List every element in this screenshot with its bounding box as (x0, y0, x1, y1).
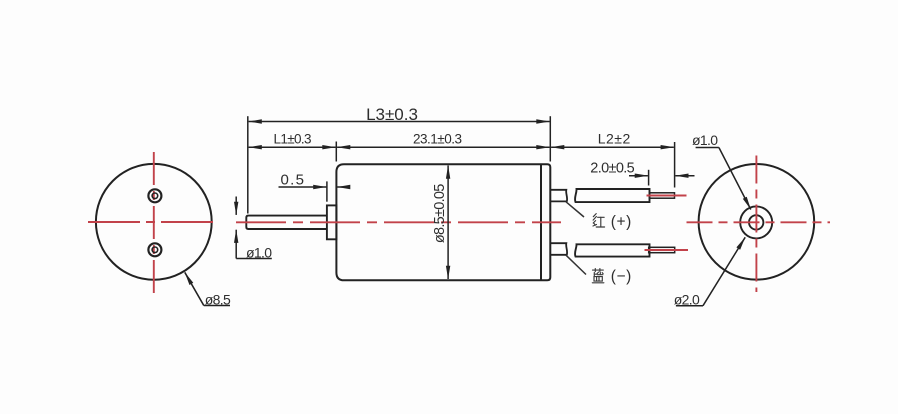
svg-text:0.5: 0.5 (280, 171, 304, 188)
svg-text:ø8.5: ø8.5 (205, 291, 231, 307)
svg-text:ø8.5±0.05: ø8.5±0.05 (432, 184, 448, 244)
svg-text:ø1.0: ø1.0 (692, 132, 718, 148)
svg-text:2.0±0.5: 2.0±0.5 (590, 160, 635, 176)
svg-text:(+): (+) (611, 213, 632, 230)
svg-text:ø2.0: ø2.0 (674, 292, 700, 308)
svg-text:L3±0.3: L3±0.3 (366, 105, 418, 124)
svg-text:L1±0.3: L1±0.3 (274, 132, 312, 147)
svg-text:ø1.0: ø1.0 (246, 245, 272, 261)
svg-text:23.1±0.3: 23.1±0.3 (413, 132, 462, 147)
svg-text:(−): (−) (611, 268, 632, 285)
svg-text:L2±2: L2±2 (598, 131, 631, 147)
